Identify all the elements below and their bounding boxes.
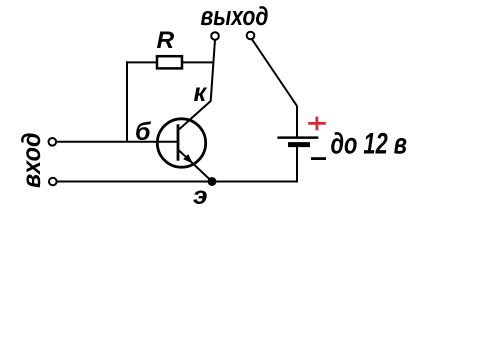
- wire: right output terminal diagonal down to battery positive: [252, 39, 297, 137]
- transistor VT1 base bar: [177, 124, 180, 160]
- input terminal (lower): [49, 178, 57, 186]
- svg-text:R: R: [157, 27, 175, 54]
- junction: emitter node dot: [208, 177, 217, 186]
- svg-text:вход: вход: [16, 133, 46, 189]
- wire: left output terminal down to collector of transistor: [178, 40, 215, 131]
- transistor VT1 emitter line: [178, 150, 212, 182]
- wire: right lead of resistor: [182, 61, 214, 63]
- battery negative plate: [288, 142, 310, 147]
- label + (battery positive, red): [308, 117, 326, 131]
- transistor VT1 body circle: [157, 119, 205, 167]
- svg-text:до 12 в: до 12 в: [331, 127, 408, 160]
- wire: left lead of resistor: [126, 61, 158, 63]
- wire: upper input to transistor base: [56, 141, 178, 143]
- svg-text:выход: выход: [201, 3, 269, 31]
- output terminal (left): [211, 32, 219, 40]
- svg-text:э: э: [193, 182, 208, 210]
- svg-text:к: к: [194, 79, 208, 107]
- svg-text:б: б: [135, 118, 152, 146]
- output terminal (right): [247, 32, 255, 40]
- battery positive plate: [277, 136, 318, 139]
- resistor R body: [157, 56, 182, 68]
- input terminal (upper): [49, 138, 57, 146]
- wire: feedback vertical from resistor to base wire: [126, 61, 128, 141]
- wire: lower input bus to battery negative: [57, 181, 298, 183]
- label − (battery negative): [311, 157, 326, 160]
- transistor VT1 emitter arrowhead: [183, 154, 193, 164]
- wire: battery negative down to emitter bus: [296, 147, 298, 182]
